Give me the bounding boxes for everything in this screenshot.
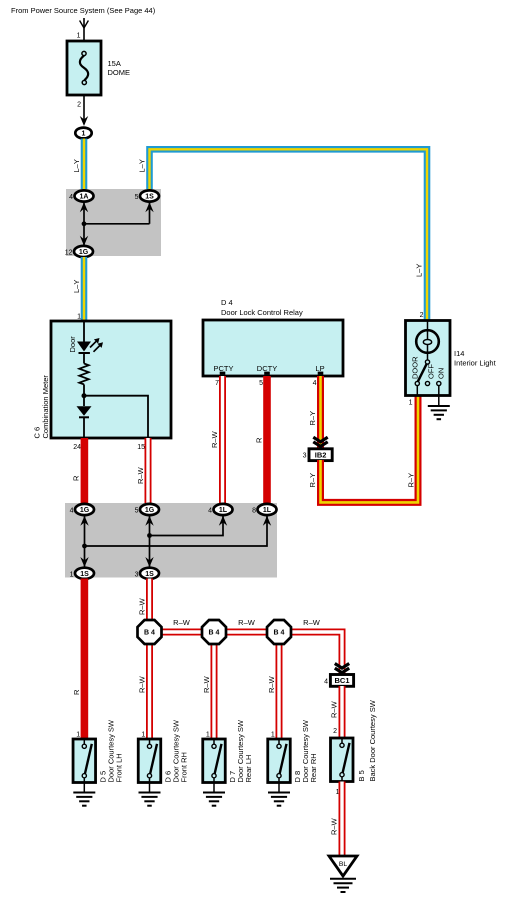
junction block no.1 (gray) — [66, 189, 161, 256]
connector B4 (junction 2) — [202, 620, 226, 644]
svg-text:R–Y: R–Y — [308, 473, 317, 488]
svg-text:1G: 1G — [79, 249, 89, 256]
switch contacts inside D 6 — [149, 739, 151, 745]
svg-text:24: 24 — [73, 444, 81, 451]
svg-text:1L: 1L — [263, 507, 272, 514]
connector arrow into IB2 — [313, 437, 327, 442]
svg-text:B 4: B 4 — [209, 630, 220, 637]
svg-text:1G: 1G — [145, 507, 155, 514]
wire R-W B5 to ground point BL — [339, 782, 346, 857]
svg-text:D 4: D 4 — [221, 298, 233, 307]
svg-text:IB2: IB2 — [315, 450, 327, 459]
ground symbol of D 7 — [213, 783, 215, 793]
fuse 15A DOME — [67, 41, 101, 95]
svg-text:R–W: R–W — [173, 618, 191, 627]
svg-text:B 5: B 5 — [357, 770, 366, 781]
svg-text:R: R — [255, 437, 264, 443]
svg-text:1: 1 — [70, 571, 74, 578]
wire R-W B4 to door courtesy SW rear LH — [211, 644, 218, 739]
svg-text:1: 1 — [141, 732, 145, 739]
switch contacts inside D 7 — [213, 739, 215, 745]
ground symbol of D 6 — [149, 783, 151, 793]
svg-text:Rear RH: Rear RH — [309, 753, 318, 782]
wire R 1S(1) to door courtesy SW front LH — [81, 579, 89, 740]
svg-text:L–Y: L–Y — [72, 159, 81, 172]
internal wire 1G(4) to 1S(1) with junction — [84, 515, 86, 568]
connector B4 (junction 1) — [138, 620, 162, 644]
svg-text:DOOR: DOOR — [411, 356, 420, 379]
svg-text:Back Door Courtesy SW: Back Door Courtesy SW — [368, 699, 377, 781]
internal wire junction to 1S — [84, 223, 150, 225]
connector 1A pin 4 — [75, 190, 94, 201]
switch contacts inside D 8 — [278, 739, 280, 745]
wire R-W combination meter 15 to junction block 1G — [145, 438, 152, 504]
junction block no.2 (gray) — [65, 503, 277, 578]
svg-text:R–W: R–W — [303, 618, 321, 627]
connector B4 (junction 3) — [267, 620, 291, 644]
svg-text:BL: BL — [339, 861, 348, 868]
svg-text:Combination Meter: Combination Meter — [41, 375, 50, 439]
svg-text:2: 2 — [420, 312, 424, 319]
svg-text:1A: 1A — [80, 194, 89, 201]
junction node in meter — [82, 393, 87, 398]
svg-text:R–Y: R–Y — [308, 411, 317, 426]
svg-text:R–W: R–W — [330, 817, 339, 835]
svg-text:Front LH: Front LH — [114, 753, 123, 782]
ground symbol of D 5 — [83, 783, 85, 793]
svg-text:12: 12 — [65, 250, 73, 257]
connector 1S pin 1 — [75, 568, 94, 579]
connector IB2 pin 3 — [309, 449, 332, 461]
internal wire junction to 1L(4) — [150, 516, 224, 536]
wire R-W BC1 to back door courtesy SW — [339, 686, 346, 738]
wire R-W 1S(3) down through B4 to door courtesy SW front RH — [146, 579, 153, 740]
wire resistor to junction — [83, 384, 85, 406]
contact ON — [437, 381, 441, 385]
svg-text:15: 15 — [137, 444, 145, 451]
svg-text:4: 4 — [313, 380, 317, 387]
internal wire 1A to 1G with junction — [83, 202, 85, 247]
svg-text:5: 5 — [135, 508, 139, 515]
resistor in combination meter — [79, 364, 88, 385]
diode in combination meter — [77, 406, 92, 416]
ground symbol of D 8 — [278, 783, 280, 793]
svg-text:3: 3 — [135, 571, 139, 578]
svg-text:R–W: R–W — [238, 618, 256, 627]
connector 1G pin 12 — [74, 246, 93, 257]
connector arrow into node 1 — [80, 116, 88, 126]
connector 1S pin 3 — [140, 568, 159, 579]
door courtesy SW D7 rear LH — [203, 739, 226, 783]
contact DOOR — [415, 381, 419, 385]
svg-text:7: 7 — [215, 380, 219, 387]
svg-text:Rear LH: Rear LH — [244, 755, 253, 783]
svg-text:ON: ON — [437, 368, 446, 379]
svg-text:5: 5 — [135, 194, 139, 201]
door courtesy SW D6 front RH — [138, 739, 161, 783]
svg-text:From Power Source System (See: From Power Source System (See Page 44) — [11, 6, 156, 15]
wire L-Y 1G to combination meter pin 1 — [81, 257, 88, 321]
svg-text:DOME: DOME — [108, 68, 131, 77]
svg-text:5: 5 — [259, 380, 263, 387]
svg-text:L–Y: L–Y — [415, 264, 424, 277]
wire fuse to connector 1 — [83, 95, 85, 120]
wire R-Y IB2 to interior light pin 1 — [321, 396, 419, 502]
svg-text:4: 4 — [324, 679, 328, 686]
svg-text:4: 4 — [69, 194, 73, 201]
wire LED to resistor — [83, 353, 85, 364]
back door courtesy SW B5 — [331, 738, 354, 782]
internal wire junction to 1L(8) — [85, 516, 268, 547]
switch pivot in interior light — [425, 360, 429, 364]
svg-text:8: 8 — [252, 508, 256, 515]
svg-text:3: 3 — [303, 453, 307, 460]
connector arrow into BC1 — [335, 664, 349, 669]
svg-text:R–W: R–W — [330, 700, 339, 718]
svg-text:B 4: B 4 — [274, 630, 285, 637]
ground point BL triangle — [329, 856, 357, 876]
switch blade to DOOR contact — [418, 364, 427, 382]
svg-text:R: R — [72, 689, 81, 695]
connector BC1 pin 4 — [330, 675, 353, 687]
svg-text:1: 1 — [77, 314, 81, 321]
svg-text:15A: 15A — [108, 59, 121, 68]
door courtesy SW D8 rear RH — [268, 739, 291, 783]
connector 1L pin 8 — [258, 504, 277, 515]
svg-text:1: 1 — [206, 732, 210, 739]
svg-text:1: 1 — [76, 732, 80, 739]
svg-text:R–W: R–W — [202, 675, 211, 693]
relay D4 Door Lock Control Relay box — [203, 320, 343, 376]
svg-text:1S: 1S — [145, 571, 154, 578]
svg-text:R–Y: R–Y — [407, 473, 416, 488]
switch contacts inside B5 — [341, 738, 343, 744]
bulb symbol in interior light — [427, 321, 429, 362]
svg-text:1: 1 — [82, 131, 86, 138]
wire R-W across B4 row to BC1 — [150, 632, 343, 675]
svg-text:I14: I14 — [454, 349, 464, 358]
svg-text:OFF: OFF — [426, 364, 435, 379]
svg-text:R–W: R–W — [210, 430, 219, 448]
svg-text:R–W: R–W — [137, 597, 146, 615]
svg-text:BC1: BC1 — [334, 676, 349, 685]
LED emission arrows — [90, 340, 97, 347]
wire R-W B4 to door courtesy SW rear RH — [276, 644, 283, 739]
internal wire junction to pin 15 — [84, 396, 148, 438]
wire R DCTY to junction block 1L — [263, 376, 271, 504]
connector 1G pin 4 — [75, 504, 94, 515]
svg-text:B 4: B 4 — [144, 630, 155, 637]
wire DOOR contact to pin 1 — [416, 386, 418, 396]
svg-text:1: 1 — [77, 33, 81, 40]
svg-text:R–W: R–W — [136, 466, 145, 484]
svg-text:Interior Light: Interior Light — [454, 359, 497, 368]
svg-text:1: 1 — [409, 400, 413, 407]
LED (Door indicator) D symbol — [77, 342, 91, 352]
door courtesy SW D5 front LH — [73, 739, 96, 783]
svg-text:R–W: R–W — [267, 675, 276, 693]
switch contacts inside D 5 — [83, 739, 85, 745]
svg-text:1G: 1G — [80, 507, 90, 514]
connector node 1 — [75, 128, 91, 139]
combination meter C6 box — [51, 321, 171, 438]
svg-text:4: 4 — [208, 508, 212, 515]
wire L-Y junction block 1S up and across to interior light pin 2 — [150, 149, 428, 320]
connector 1L pin 4 — [214, 504, 233, 515]
interior light I14 box — [406, 321, 451, 396]
svg-text:L–Y: L–Y — [72, 280, 81, 293]
internal wire to LED — [83, 321, 85, 342]
wire R-W PCTY to junction block 1L — [219, 376, 226, 504]
ground symbol BL — [330, 878, 356, 880]
svg-text:R: R — [72, 475, 81, 481]
wire R combination meter 24 to junction block 1G — [81, 438, 89, 504]
svg-text:R–W: R–W — [137, 675, 146, 693]
wire R-Y LP to connector IB2 — [317, 376, 324, 450]
ground of interior light (ON contact) — [438, 386, 440, 406]
contact OFF — [425, 381, 429, 385]
svg-text:4: 4 — [70, 508, 74, 515]
svg-text:2: 2 — [77, 102, 81, 109]
svg-text:Door: Door — [68, 336, 77, 353]
svg-text:L–Y: L–Y — [138, 159, 147, 172]
svg-text:1: 1 — [271, 732, 275, 739]
svg-text:2: 2 — [333, 728, 337, 735]
wire from power source (black) with open arrow — [83, 18, 85, 41]
wire L-Y fuse connector to junction block 1A — [81, 139, 88, 191]
svg-text:1S: 1S — [145, 194, 154, 201]
internal wire 1G(5) to 1S(3) with junction — [149, 515, 151, 568]
connector 1G pin 5 — [140, 504, 159, 515]
svg-text:1L: 1L — [219, 507, 228, 514]
svg-text:Door Lock Control Relay: Door Lock Control Relay — [221, 308, 303, 317]
svg-text:1S: 1S — [80, 571, 89, 578]
connector 1S pin 5 — [140, 190, 159, 201]
svg-text:Front RH: Front RH — [180, 752, 189, 782]
